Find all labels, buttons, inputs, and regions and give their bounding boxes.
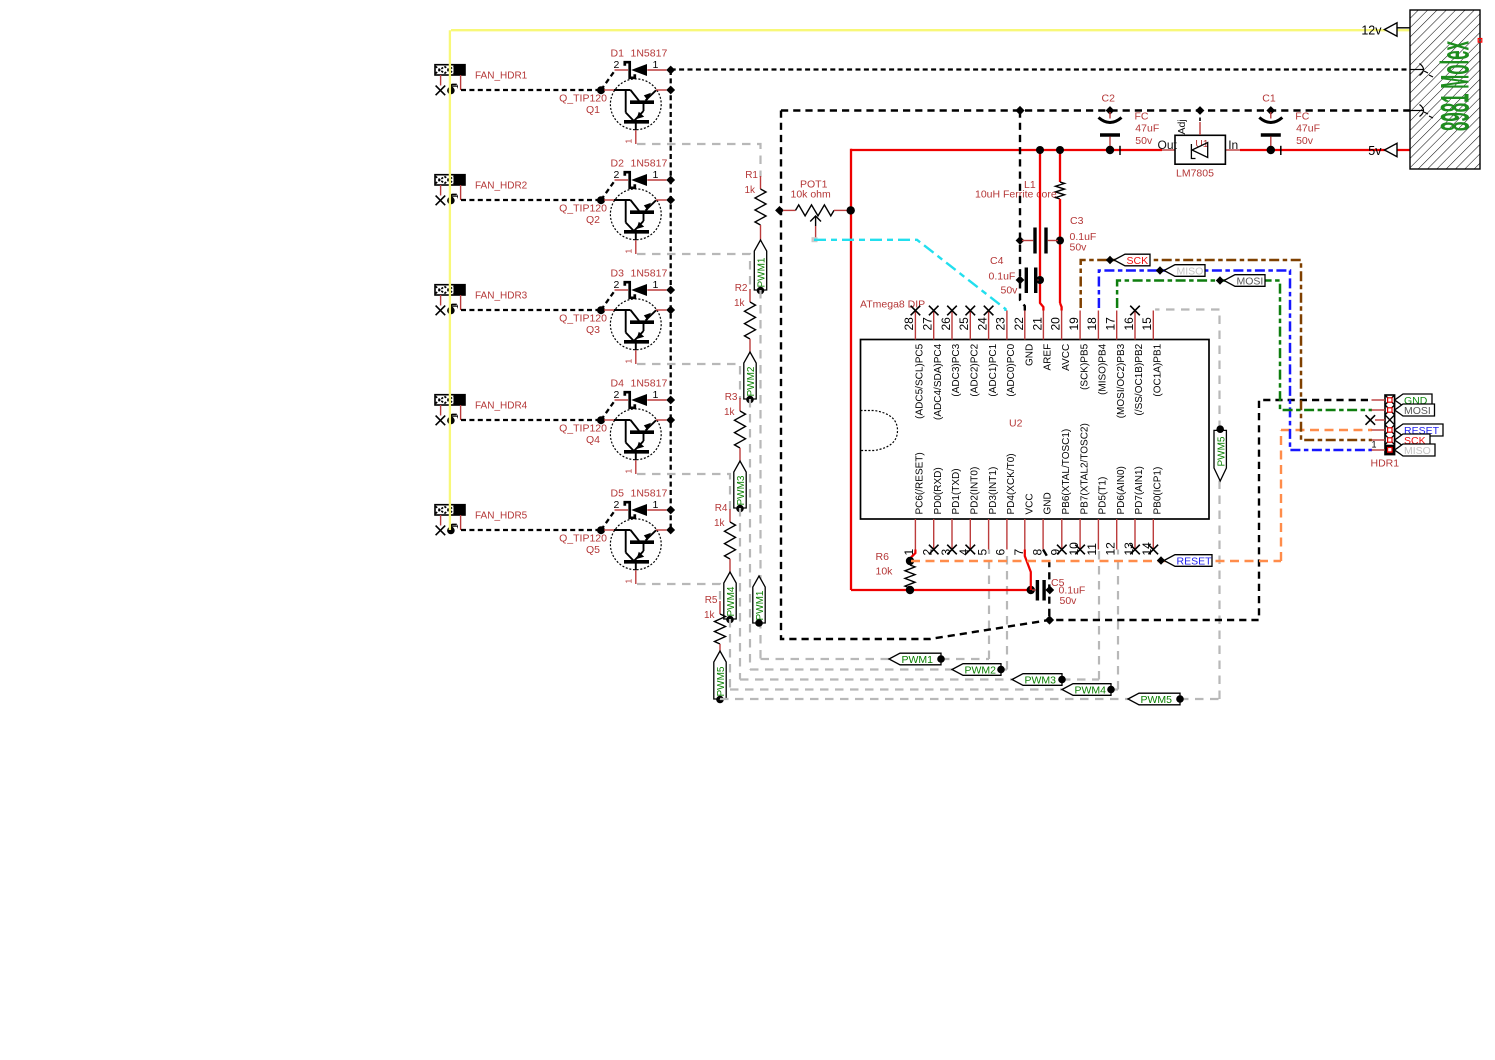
svg-text:PWM2: PWM2	[746, 366, 757, 396]
svg-text:HDR1: HDR1	[1371, 458, 1400, 470]
svg-text:26: 26	[939, 317, 953, 331]
wire Q4 emitter to R4	[637, 474, 730, 510]
net flag GND at HDR1	[1395, 394, 1432, 407]
svg-text:Out: Out	[1158, 138, 1178, 152]
svg-text:PB0(ICP1): PB0(ICP1)	[1153, 467, 1164, 515]
svg-text:24: 24	[975, 317, 989, 331]
node diode D1 cathode junction	[666, 66, 675, 75]
svg-text:2: 2	[614, 169, 620, 181]
wire 5v rail	[851, 149, 1410, 590]
svg-text:12: 12	[1104, 542, 1118, 556]
wire pin1 to RESET node	[906, 550, 916, 566]
wire PWM2 bottom run	[750, 668, 1007, 670]
wire 5v to L1 branch	[1056, 146, 1064, 182]
svg-text:D4: D4	[611, 378, 625, 390]
HDR1 pin 3 no-connect	[1366, 415, 1386, 425]
svg-text:Q_TIP120: Q_TIP120	[559, 533, 607, 545]
svg-text:20: 20	[1049, 317, 1063, 331]
svg-text:D2: D2	[611, 158, 625, 170]
svg-text:C2: C2	[1102, 93, 1116, 105]
svg-text:(ADC0)PC0: (ADC0)PC0	[1006, 343, 1017, 396]
net flag MOSI	[1216, 275, 1265, 288]
pin 13 (PD7(AIN1))	[1122, 466, 1145, 555]
FAN_HDR1 pin 1 stub (no connect)	[436, 75, 446, 95]
svg-text:VCC: VCC	[1024, 493, 1035, 514]
svg-text:R1: R1	[745, 170, 758, 181]
svg-text:PD6(AIN0): PD6(AIN0)	[1116, 466, 1127, 514]
pin 11 (PD5(T1))	[1085, 477, 1108, 556]
svg-text:50v: 50v	[1001, 285, 1019, 297]
FAN_HDR2 pin 2 stub	[450, 185, 461, 200]
net flag PWM3 (chain)	[734, 461, 747, 512]
wire PWM5 bottom run	[720, 698, 1220, 700]
wire GND vertical to C3/C4/pin22	[1016, 111, 1025, 311]
svg-text:Q4: Q4	[586, 434, 600, 446]
pin 27 ((ADC4/SDA)PC4)	[921, 306, 944, 420]
wire 12v tap hook at FAN_HDR4	[447, 415, 457, 425]
pin 20 stub	[1061, 311, 1063, 340]
svg-text:R5: R5	[705, 595, 718, 606]
svg-text:1N5817: 1N5817	[631, 378, 668, 390]
svg-text:5v: 5v	[1368, 144, 1382, 158]
wire bus to molex pin 2	[671, 68, 1410, 70]
wire PWM1 bottom run	[761, 658, 990, 660]
node diode D2 cathode junction	[666, 176, 675, 185]
capacitor C2 FC 47uF 50v	[1099, 93, 1160, 155]
HDR1 pin lead MOSI	[1372, 408, 1393, 412]
connector FAN_HDR2	[435, 175, 465, 185]
pin 17 ((MOSI/OC2)PB3)	[1104, 311, 1127, 419]
svg-text:1: 1	[624, 359, 634, 364]
svg-text:PD2(INT0): PD2(INT0)	[970, 467, 981, 515]
svg-text:11: 11	[1085, 543, 1099, 556]
pin 7 (VCC)	[1012, 493, 1035, 555]
svg-text:AREF: AREF	[1043, 344, 1054, 371]
wire PWM4 riser to pin12	[1117, 550, 1119, 690]
svg-text:5: 5	[975, 549, 989, 556]
pin 1 stub	[914, 519, 916, 550]
svg-text:10uH Ferrite core: 10uH Ferrite core	[975, 188, 1057, 200]
svg-text:R3: R3	[725, 392, 738, 403]
svg-text:50v: 50v	[1060, 595, 1078, 607]
svg-text:PB7(XTAL2/TOSC2): PB7(XTAL2/TOSC2)	[1079, 423, 1090, 514]
svg-text:C4: C4	[990, 255, 1004, 267]
svg-text:3: 3	[939, 549, 953, 556]
wire MOSI net (green)	[1117, 281, 1372, 411]
svg-text:1: 1	[624, 579, 634, 584]
svg-text:1k: 1k	[744, 185, 756, 196]
capacitor C5 0.1uF 50v	[1032, 577, 1085, 607]
svg-text:50v: 50v	[1135, 135, 1153, 147]
diode D2 1N5817	[611, 158, 668, 188]
svg-text:(/SS/OC1B)PB2: (/SS/OC1B)PB2	[1134, 343, 1145, 415]
svg-text:18: 18	[1085, 317, 1099, 331]
svg-text:Q_TIP120: Q_TIP120	[559, 93, 607, 105]
net flag PWM5 (chain)	[714, 651, 727, 703]
pin 18 ((MISO)PB4)	[1085, 311, 1108, 395]
svg-text:25: 25	[957, 317, 971, 331]
wire PWM1 riser to pin5	[988, 550, 990, 660]
wire PWM2 riser to pin6	[1006, 550, 1008, 670]
resistor R5 1k	[704, 595, 726, 651]
svg-text:FAN_HDR2: FAN_HDR2	[475, 181, 528, 192]
svg-text:17: 17	[1104, 317, 1118, 331]
svg-text:Q2: Q2	[586, 214, 600, 226]
capacitor C4 0.1uF 50v	[989, 255, 1039, 297]
pin 14 (PB0(ICP1))	[1140, 467, 1163, 556]
FAN_HDR3 pin 1 stub (no connect)	[436, 295, 446, 315]
potentiometer POT1 10k ohm	[775, 179, 855, 239]
diode D4 1N5817	[611, 378, 668, 408]
svg-text:PWM3: PWM3	[736, 475, 747, 505]
svg-text:4: 4	[957, 549, 971, 556]
svg-text:2: 2	[921, 549, 935, 556]
svg-text:U2: U2	[1009, 418, 1023, 430]
HDR1 pin lead RESET	[1372, 428, 1393, 432]
svg-text:1: 1	[653, 59, 659, 71]
pin 10 (PB7(XTAL2/TOSC2))	[1067, 423, 1090, 555]
svg-text:R2: R2	[735, 283, 748, 294]
wire base net FAN_HDR3 to Q3	[461, 291, 615, 314]
pin 12 (PD6(AIN0))	[1104, 466, 1127, 555]
power arrow 5v	[1368, 143, 1397, 158]
wire base net FAN_HDR5 to Q5	[461, 511, 615, 534]
svg-text:Q5: Q5	[586, 544, 600, 556]
connector FAN_HDR5	[435, 505, 465, 515]
pin 25 ((ADC2)PC2)	[957, 306, 980, 397]
connector HDR1	[1385, 395, 1395, 455]
resistor R6 10k	[876, 551, 916, 590]
svg-text:10k ohm: 10k ohm	[791, 188, 832, 200]
svg-text:FAN_HDR3: FAN_HDR3	[475, 291, 528, 302]
svg-text:1: 1	[624, 249, 634, 254]
svg-text:LM7805: LM7805	[1176, 167, 1214, 179]
svg-text:22: 22	[1012, 317, 1026, 331]
svg-text:PWM5: PWM5	[1216, 436, 1227, 466]
svg-text:28: 28	[902, 317, 916, 331]
svg-text:(MISO)PB4: (MISO)PB4	[1098, 343, 1109, 395]
resistor R2 1k	[734, 283, 756, 352]
svg-text:PWM1: PWM1	[755, 590, 766, 620]
svg-text:PWM5: PWM5	[1141, 694, 1173, 706]
svg-text:(ADC4/SDA)PC4: (ADC4/SDA)PC4	[933, 343, 944, 420]
transistor Q1 Q_TIP120	[559, 79, 666, 144]
wire chain3 lower	[739, 508, 741, 680]
svg-text:2: 2	[614, 59, 620, 71]
wire Q2 emitter to R2	[637, 254, 750, 290]
svg-text:12v: 12v	[1361, 24, 1382, 38]
svg-text:50v: 50v	[1070, 242, 1088, 254]
net flag MISO	[1156, 265, 1205, 278]
connector FAN_HDR4	[435, 395, 465, 405]
pin 4 (PD2(INT0))	[957, 467, 980, 556]
node GND top-edge junction	[1015, 106, 1024, 115]
svg-text:PD7(AIN1): PD7(AIN1)	[1134, 466, 1145, 514]
svg-text:Q_TIP120: Q_TIP120	[559, 423, 607, 435]
svg-text:FAN_HDR4: FAN_HDR4	[475, 401, 528, 412]
svg-text:Q_TIP120: Q_TIP120	[559, 203, 607, 215]
svg-text:SCK: SCK	[1127, 255, 1149, 267]
IC U2 ATmega8 DIP	[860, 299, 1209, 519]
transistor Q3 Q_TIP120	[559, 299, 666, 364]
net flag PWM4 (bottom)	[1062, 684, 1111, 696]
wire chain2 lower	[749, 399, 751, 670]
wire Q1 emitter to R1	[637, 144, 761, 177]
svg-text:In: In	[1228, 138, 1238, 152]
svg-text:2: 2	[614, 499, 620, 511]
svg-text:PWM5: PWM5	[716, 666, 727, 696]
svg-text:(ADC1)PC1: (ADC1)PC1	[988, 343, 999, 396]
wire MISO net (blue)	[1099, 271, 1372, 451]
svg-text:PD1(TXD): PD1(TXD)	[951, 468, 962, 514]
pin 22 stub	[1024, 311, 1026, 340]
wire PWM3 bottom run	[740, 678, 1099, 680]
transistor Q4 Q_TIP120	[559, 409, 666, 474]
svg-text:RESET: RESET	[1177, 555, 1213, 567]
svg-text:Q3: Q3	[586, 324, 600, 336]
svg-text:D5: D5	[611, 488, 625, 500]
FAN_HDR1 pin 2 stub	[450, 75, 461, 90]
pin 28 ((ADC5/SCL)PC5)	[902, 306, 925, 419]
svg-text:8: 8	[1030, 549, 1044, 556]
pin 7 stub	[1024, 519, 1026, 550]
wire SCK net (brown)	[1081, 260, 1372, 440]
pin 6 (PD4(XCK/T0))	[994, 453, 1017, 555]
diode D5 1N5817	[611, 488, 668, 518]
wire pin8 GND to bus	[1043, 550, 1054, 621]
connector FAN_HDR1	[435, 65, 465, 75]
wire Q5 emitter to R5	[637, 584, 720, 602]
svg-text:15: 15	[1140, 317, 1154, 331]
svg-text:C1: C1	[1262, 93, 1276, 105]
FAN_HDR2 pin 1 stub (no connect)	[436, 185, 446, 205]
wire RESET net (orange)	[911, 430, 1372, 561]
pin 9 (PB6(XTAL/TOSC1))	[1049, 429, 1072, 556]
svg-text:47uF: 47uF	[1296, 122, 1320, 134]
wire 12v tap hook at FAN_HDR5	[447, 525, 457, 535]
net flag MOSI at HDR1	[1395, 404, 1435, 417]
capacitor C1 FC 47uF 50v	[1259, 93, 1320, 155]
svg-text:16: 16	[1122, 317, 1136, 331]
wire POT1 wiper cyan to pin23	[812, 237, 1006, 311]
svg-text:9: 9	[1049, 549, 1063, 556]
svg-text:10k: 10k	[876, 566, 894, 578]
net flag PWM1 (bottom)	[889, 653, 941, 665]
HDR1 pin lead GND	[1372, 398, 1393, 402]
svg-text:PD0(RXD): PD0(RXD)	[933, 467, 944, 514]
svg-text:PD4(XCK/T0): PD4(XCK/T0)	[1006, 453, 1017, 514]
node Q5 collector junction	[666, 526, 675, 535]
pin 21 stub	[1042, 311, 1044, 340]
HDR1 pin lead SCK	[1372, 438, 1393, 442]
svg-text:PWM3: PWM3	[1025, 674, 1057, 686]
svg-text:MISO: MISO	[1177, 265, 1204, 277]
svg-text:1: 1	[653, 499, 659, 511]
regulator U1 LM7805	[1158, 106, 1239, 179]
power arrow 12v	[1361, 23, 1410, 38]
pin 1 (PC6(/RESET))	[902, 452, 925, 555]
FAN_HDR5 pin 1 stub (no connect)	[436, 515, 446, 535]
wire 5v to C4/AREF branch	[1036, 146, 1044, 311]
svg-text:1N5817: 1N5817	[631, 158, 668, 170]
wire 12v tap hook at FAN_HDR1	[447, 85, 457, 95]
resistor R3 1k	[724, 392, 746, 461]
wire base net FAN_HDR1 to Q1	[461, 71, 615, 94]
FAN_HDR4 pin 1 stub (no connect)	[436, 405, 446, 425]
wire VCC rail bottom	[851, 586, 1035, 594]
svg-text:C3: C3	[1070, 215, 1084, 227]
svg-text:D1: D1	[611, 48, 625, 60]
wire collector/diode bus	[670, 70, 672, 530]
svg-text:0.1uF: 0.1uF	[989, 270, 1016, 282]
net flag PWM2 (bottom)	[952, 664, 1001, 676]
pin 23 ((ADC0)PC0)	[994, 311, 1017, 397]
svg-text:FC: FC	[1135, 110, 1149, 122]
wire PWM5 riser to pin15	[1155, 310, 1219, 700]
svg-text:1: 1	[624, 139, 634, 144]
node Q4 collector junction	[666, 416, 675, 425]
svg-text:FAN_HDR5: FAN_HDR5	[475, 511, 528, 522]
svg-text:1N5817: 1N5817	[631, 268, 668, 280]
pin 2 (PD0(RXD))	[921, 467, 944, 555]
svg-text:1k: 1k	[734, 298, 746, 309]
svg-text:PWM2: PWM2	[965, 664, 997, 676]
wire chain5 lower	[719, 698, 721, 700]
pin 8 (GND)	[1030, 492, 1053, 555]
net flag PWM1 (second, chain1 lower)	[753, 576, 766, 627]
svg-text:PB6(XTAL/TOSC1): PB6(XTAL/TOSC1)	[1061, 429, 1072, 515]
svg-text:PC6(/RESET): PC6(/RESET)	[915, 452, 926, 514]
wire 12v tap hook at FAN_HDR2	[447, 195, 457, 205]
net flag PWM5 (pennant right of chip)	[1214, 425, 1227, 481]
svg-text:1k: 1k	[714, 518, 726, 529]
pin 26 ((ADC3)PC3)	[939, 306, 962, 397]
wire L1 to C3/AVCC	[1056, 199, 1064, 311]
svg-text:1N5817: 1N5817	[631, 48, 668, 60]
wire Q3 emitter to R3	[637, 364, 740, 399]
svg-text:(ADC5/SCL)PC5: (ADC5/SCL)PC5	[915, 343, 926, 418]
net flag PWM5 (bottom)	[1128, 693, 1180, 705]
wire chain4 lower	[729, 619, 731, 690]
pin 20 (AVCC)	[1049, 317, 1072, 371]
svg-text:Adj: Adj	[1176, 119, 1188, 134]
FAN_HDR3 pin 2 stub	[450, 295, 461, 310]
wire PWM3 riser to pin11	[1098, 550, 1100, 680]
FAN_HDR5 pin 2 stub	[450, 515, 461, 530]
svg-text:PD5(T1): PD5(T1)	[1098, 477, 1109, 515]
svg-text:47uF: 47uF	[1135, 122, 1159, 134]
node Q3 collector junction	[666, 306, 675, 315]
diode D1 1N5817	[611, 48, 668, 78]
wire base net FAN_HDR4 to Q4	[461, 401, 615, 424]
molex pin contacts	[1410, 64, 1433, 119]
svg-text:(ADC2)PC2: (ADC2)PC2	[970, 343, 981, 396]
svg-text:1: 1	[1372, 439, 1377, 449]
connector FAN_HDR3	[435, 285, 465, 295]
svg-text:(MOSI/OC2)PB3: (MOSI/OC2)PB3	[1116, 343, 1127, 418]
svg-text:ATmega8 DIP: ATmega8 DIP	[860, 299, 925, 311]
node diode D3 cathode junction	[666, 286, 675, 295]
node diode D4 cathode junction	[666, 396, 675, 405]
svg-text:27: 27	[921, 317, 935, 331]
svg-text:PD3(INT1): PD3(INT1)	[988, 467, 999, 515]
pin 21 (AREF)	[1030, 317, 1053, 371]
svg-text:D3: D3	[611, 268, 625, 280]
resistor R4 1k	[714, 503, 736, 572]
wire PWM4 bottom run	[730, 688, 1118, 690]
svg-text:PWM4: PWM4	[1075, 684, 1107, 696]
node Q2 collector junction	[666, 196, 675, 205]
wire chain1 lower	[759, 290, 761, 659]
svg-text:1: 1	[653, 169, 659, 181]
svg-text:8981 Molex: 8981 Molex	[1434, 41, 1478, 131]
net flag MISO at HDR1	[1395, 444, 1435, 457]
pin 15 ((OC1A)PB1)	[1140, 311, 1163, 397]
diode D3 1N5817	[611, 268, 668, 298]
svg-text:AVCC: AVCC	[1061, 344, 1072, 371]
svg-text:PWM1: PWM1	[902, 654, 934, 666]
pin 19 ((SCK)PB5)	[1067, 311, 1090, 390]
svg-text:Q1: Q1	[586, 104, 600, 116]
wire 12v yellow net	[450, 30, 1410, 530]
svg-text:1k: 1k	[704, 610, 716, 621]
svg-text:1: 1	[653, 389, 659, 401]
HDR1 pin3 red square	[1387, 418, 1392, 423]
pin 5 (PD3(INT1))	[975, 467, 998, 556]
net flag RESET	[1157, 555, 1212, 568]
svg-text:19: 19	[1067, 317, 1081, 331]
wire GND net left/top/bottom	[781, 111, 1410, 640]
net flag SCK at HDR1	[1395, 434, 1430, 447]
svg-text:PWM1: PWM1	[757, 257, 768, 287]
HDR1 pin1 red square	[1388, 448, 1392, 452]
svg-text:21: 21	[1030, 317, 1044, 331]
capacitor C3 0.1uF 50v	[1022, 215, 1096, 254]
svg-text:6: 6	[994, 549, 1008, 556]
net flag PWM3 (bottom)	[1012, 674, 1062, 686]
svg-text:1N5817: 1N5817	[631, 488, 668, 500]
node Q1 collector junction	[666, 86, 675, 95]
svg-text:1k: 1k	[724, 407, 736, 418]
svg-text:GND: GND	[1043, 492, 1054, 514]
transistor Q5 Q_TIP120	[559, 519, 666, 584]
svg-text:(OC1A)PB1: (OC1A)PB1	[1153, 343, 1164, 396]
pin 3 (PD1(TXD))	[939, 468, 962, 555]
svg-text:(ADC3)PC3: (ADC3)PC3	[951, 343, 962, 396]
net flag RESET at HDR1	[1395, 424, 1443, 437]
pin 16 ((/SS/OC1B)PB2)	[1122, 306, 1145, 416]
wire 12v tap hook at FAN_HDR3	[447, 305, 457, 315]
FAN_HDR4 pin 2 stub	[450, 405, 461, 420]
node GND bus / C5 junction	[1045, 615, 1054, 624]
svg-text:MISO: MISO	[1404, 445, 1431, 457]
pin 22 (GND)	[1012, 317, 1035, 366]
svg-text:PWM4: PWM4	[726, 586, 737, 616]
svg-text:1: 1	[653, 279, 659, 291]
pin 8 stub	[1042, 519, 1044, 550]
transistor Q2 Q_TIP120	[559, 189, 666, 254]
wire pin7 VCC bend	[1025, 550, 1031, 591]
net flag PWM1 (chain)	[754, 240, 767, 294]
svg-text:1: 1	[624, 469, 634, 474]
svg-text:R4: R4	[715, 503, 728, 514]
inductor L1 10uH Ferrite core	[975, 179, 1065, 201]
svg-text:FC: FC	[1295, 110, 1309, 122]
net flag SCK	[1106, 254, 1150, 267]
svg-text:U1: U1	[1195, 138, 1209, 150]
net flag PWM4 (chain)	[724, 572, 737, 623]
net flag PWM2 (chain)	[744, 352, 757, 403]
